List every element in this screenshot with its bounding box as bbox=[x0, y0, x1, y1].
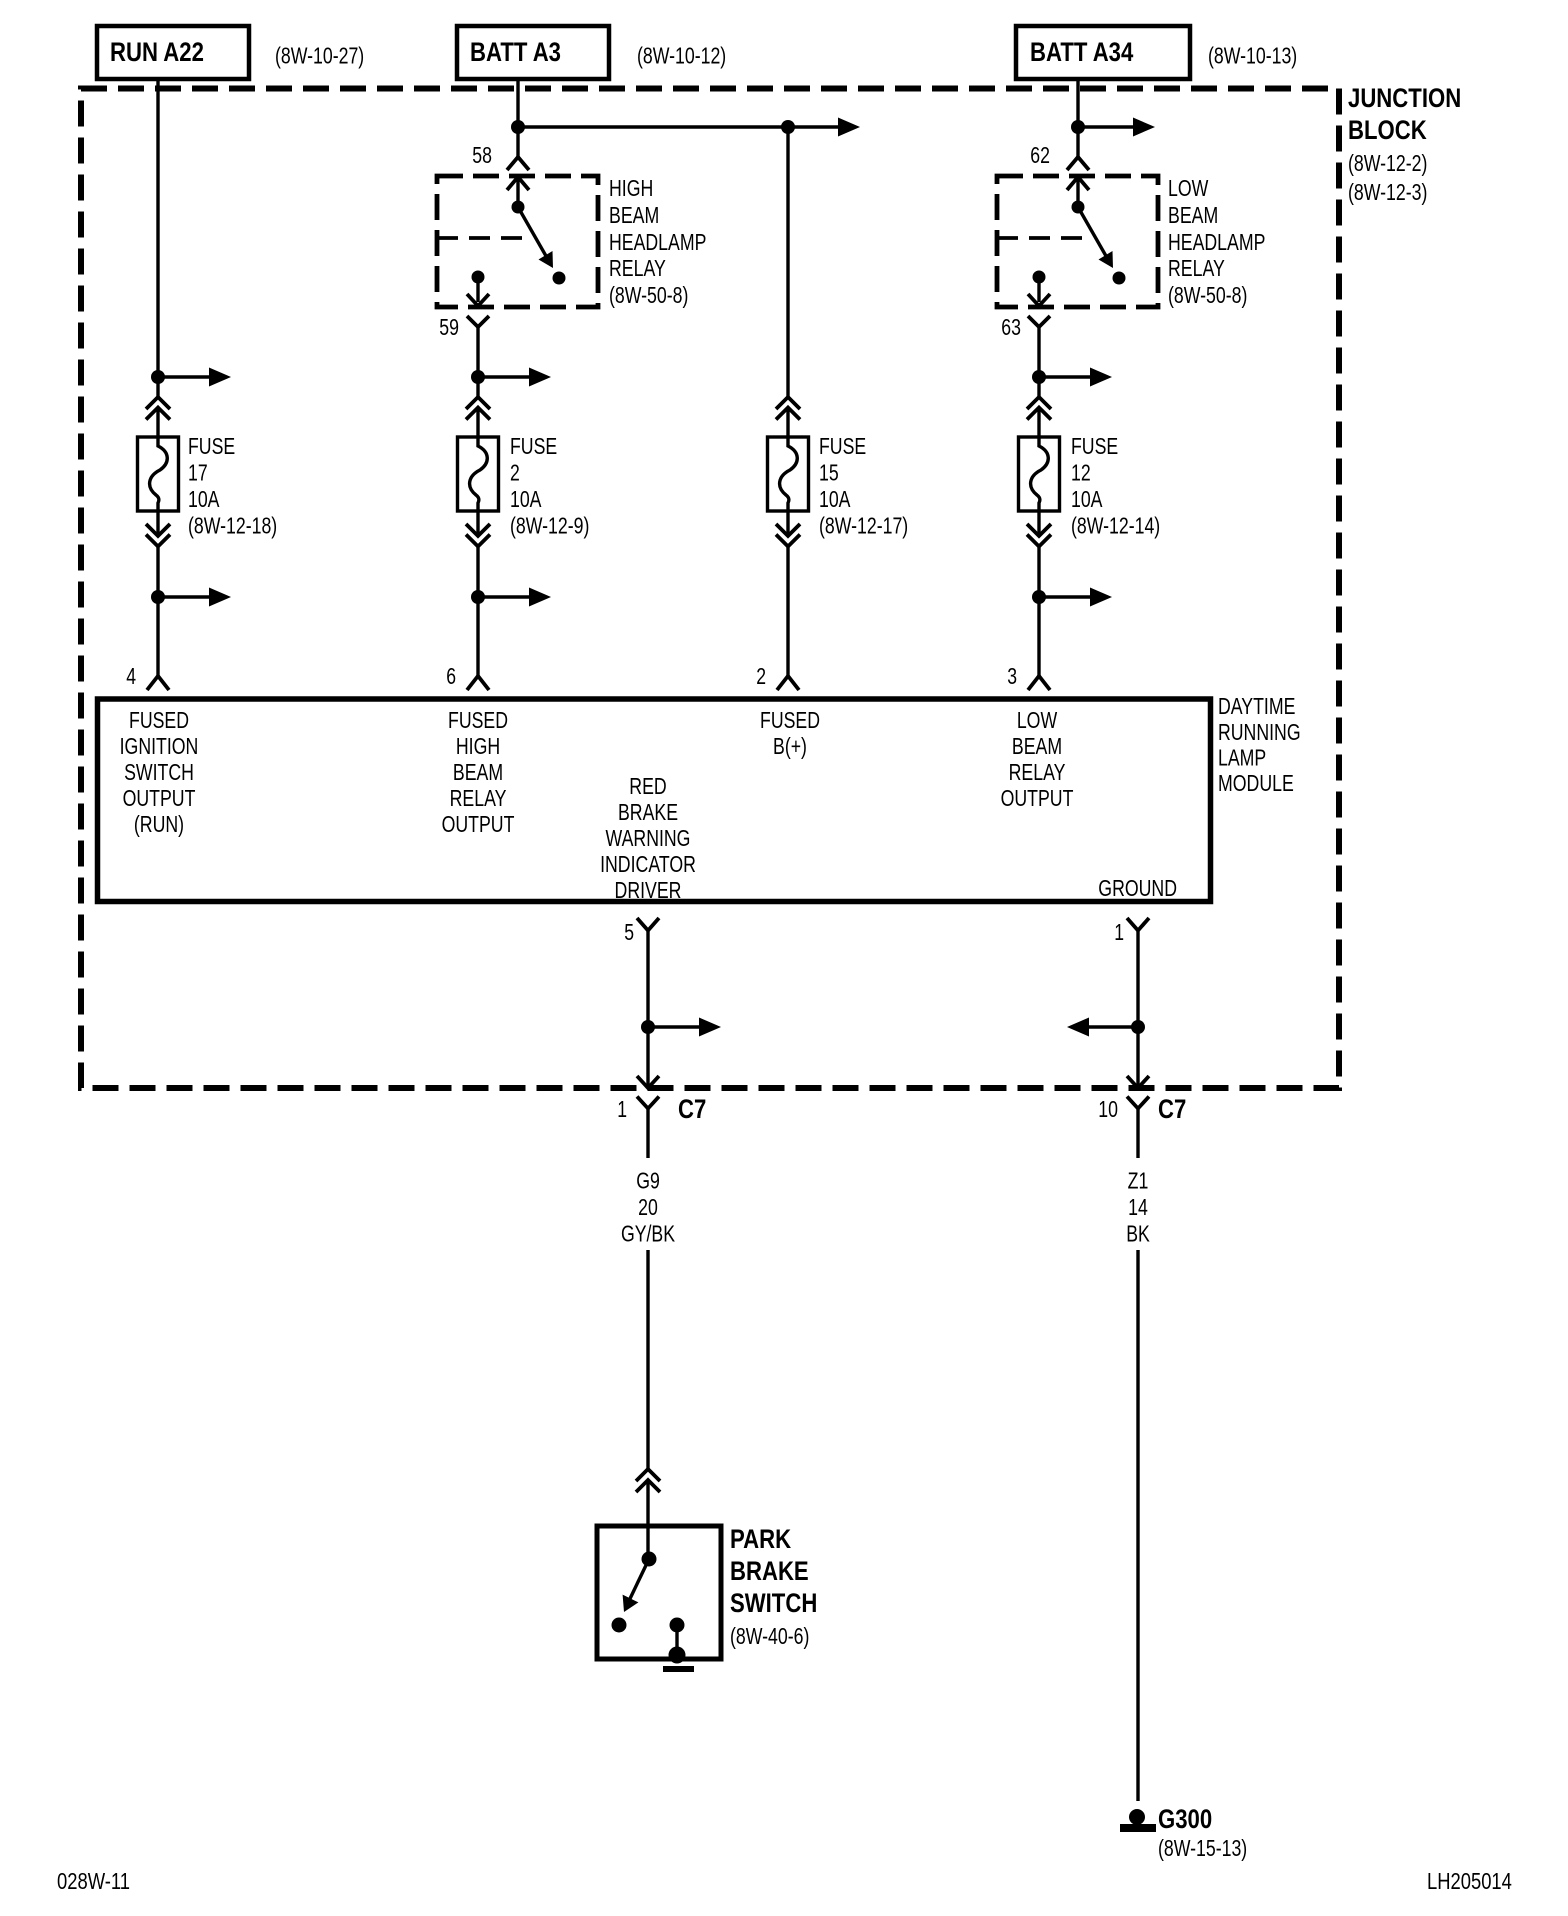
wire connector to fuse 17 bbox=[156, 408, 159, 438]
node BATT A34 splice bbox=[1071, 120, 1085, 134]
svg-text:BRAKE: BRAKE bbox=[730, 1556, 809, 1586]
park brake switch common bbox=[642, 1552, 657, 1567]
wire fuse 15 to connector bbox=[786, 511, 789, 536]
svg-text:HEADLAMP: HEADLAMP bbox=[1168, 229, 1265, 255]
svg-text:HIGH: HIGH bbox=[456, 733, 500, 759]
wire G9 upper segment bbox=[646, 1109, 649, 1159]
svg-text:14: 14 bbox=[1128, 1194, 1148, 1220]
fuse 12 bbox=[1019, 437, 1060, 511]
svg-text:58: 58 bbox=[472, 142, 492, 168]
svg-text:(8W-10-13): (8W-10-13) bbox=[1208, 43, 1297, 69]
svg-text:(8W-10-27): (8W-10-27) bbox=[275, 43, 364, 69]
svg-text:DRIVER: DRIVER bbox=[615, 877, 682, 903]
svg-text:10A: 10A bbox=[819, 486, 851, 512]
svg-text:SWITCH: SWITCH bbox=[730, 1588, 817, 1618]
node splice on high beam feed bbox=[471, 370, 485, 384]
relay coil divider low bbox=[997, 236, 1093, 240]
wire connector to pin 6 bbox=[476, 547, 479, 677]
wire fused B(+) to connector bbox=[786, 127, 789, 397]
svg-text:FUSED: FUSED bbox=[448, 707, 508, 733]
connector pair above fuse 17 bbox=[146, 397, 170, 409]
svg-text:INDICATOR: INDICATOR bbox=[600, 851, 696, 877]
svg-text:15: 15 bbox=[819, 460, 839, 486]
connector pair above fuse 2 bbox=[466, 397, 490, 409]
wire fuse 12 to connector bbox=[1037, 511, 1040, 536]
pin 1 (ground) bbox=[1127, 918, 1149, 931]
svg-text:BEAM: BEAM bbox=[1168, 202, 1218, 228]
svg-text:IGNITION: IGNITION bbox=[120, 733, 199, 759]
connector C7 pin 10 bbox=[1127, 1097, 1149, 1109]
wire relay output to connector bbox=[476, 327, 479, 397]
svg-text:BEAM: BEAM bbox=[1012, 733, 1062, 759]
wire G9 lower segment bbox=[646, 1250, 649, 1469]
wire pin 1 to C7 bbox=[1136, 931, 1139, 1089]
svg-text:5: 5 bbox=[624, 919, 634, 945]
wire connector to pin 4 bbox=[156, 547, 159, 677]
wire Z1 lower segment bbox=[1136, 1250, 1139, 1801]
relay output terminal low bbox=[1033, 271, 1046, 284]
wire connector to fuse 15 bbox=[786, 408, 789, 438]
wire BATT A34 down bbox=[1076, 79, 1079, 157]
exit arrow at junction border left bbox=[637, 1076, 659, 1088]
park brake switch box bbox=[597, 1526, 721, 1659]
park brake case ground bbox=[669, 1647, 686, 1664]
svg-text:G300: G300 bbox=[1158, 1804, 1212, 1834]
svg-text:4: 4 bbox=[126, 663, 136, 689]
svg-text:1: 1 bbox=[617, 1096, 627, 1122]
daytime running lamp module box bbox=[98, 699, 1211, 902]
svg-text:2: 2 bbox=[756, 663, 766, 689]
svg-text:JUNCTION: JUNCTION bbox=[1348, 83, 1461, 113]
svg-text:RED: RED bbox=[629, 773, 666, 799]
pin 5 bbox=[637, 918, 659, 931]
svg-text:HIGH: HIGH bbox=[609, 175, 653, 201]
svg-text:PARK: PARK bbox=[730, 1524, 791, 1554]
node splice on low beam feed bbox=[1032, 370, 1046, 384]
svg-text:RELAY: RELAY bbox=[1168, 255, 1225, 281]
svg-text:FUSE: FUSE bbox=[1071, 433, 1118, 459]
wire connector to fuse 2 bbox=[476, 408, 479, 438]
wire Z1 upper segment bbox=[1136, 1109, 1139, 1159]
svg-text:1: 1 bbox=[1114, 919, 1124, 945]
node splice below fuse 12 bbox=[1032, 590, 1046, 604]
fuse 2 bbox=[458, 437, 499, 511]
svg-text:(8W-12-2): (8W-12-2) bbox=[1348, 150, 1427, 176]
svg-text:3: 3 bbox=[1007, 663, 1017, 689]
connector C7 pin 1 bbox=[637, 1097, 659, 1109]
connector pair below fuse 15 bbox=[776, 524, 800, 536]
svg-text:RELAY: RELAY bbox=[450, 785, 507, 811]
node splice pin1 wire bbox=[1131, 1020, 1145, 1034]
svg-text:RUNNING: RUNNING bbox=[1218, 719, 1301, 745]
connector pair above fuse 12 bbox=[1027, 397, 1051, 409]
svg-text:59: 59 bbox=[439, 314, 459, 340]
svg-text:20: 20 bbox=[638, 1194, 658, 1220]
park brake switch contact bbox=[612, 1618, 627, 1633]
svg-text:HEADLAMP: HEADLAMP bbox=[609, 229, 706, 255]
relay NO contact low bbox=[1113, 272, 1126, 285]
connector pair below fuse 2 bbox=[466, 524, 490, 536]
svg-text:MODULE: MODULE bbox=[1218, 770, 1294, 796]
svg-text:RELAY: RELAY bbox=[609, 255, 666, 281]
svg-text:FUSED: FUSED bbox=[760, 707, 820, 733]
svg-text:(8W-50-8): (8W-50-8) bbox=[1168, 282, 1247, 308]
svg-text:FUSED: FUSED bbox=[129, 707, 189, 733]
svg-text:FUSE: FUSE bbox=[188, 433, 235, 459]
wire connector to fuse 12 bbox=[1037, 408, 1040, 438]
svg-text:SWITCH: SWITCH bbox=[124, 759, 194, 785]
svg-text:BATT A3: BATT A3 bbox=[470, 37, 561, 67]
svg-text:G9: G9 bbox=[636, 1168, 660, 1194]
svg-text:028W-11: 028W-11 bbox=[57, 1868, 130, 1894]
wire connector to pin 3 bbox=[1037, 547, 1040, 677]
wire BATT A3 down bbox=[516, 79, 519, 157]
svg-text:(RUN): (RUN) bbox=[134, 811, 184, 837]
relay output terminal bbox=[472, 271, 485, 284]
svg-text:GY/BK: GY/BK bbox=[621, 1221, 676, 1247]
node splice on RUN feed bbox=[151, 370, 165, 384]
svg-text:LOW: LOW bbox=[1168, 175, 1209, 201]
exit arrow at junction border right bbox=[1127, 1076, 1149, 1088]
svg-text:OUTPUT: OUTPUT bbox=[442, 811, 515, 837]
wire BATT A3 branch to fused B(+) bbox=[518, 125, 838, 128]
low beam headlamp relay box bbox=[997, 176, 1158, 307]
inline connector on G9 bbox=[636, 1469, 660, 1481]
svg-text:BEAM: BEAM bbox=[609, 202, 659, 228]
svg-text:(8W-12-18): (8W-12-18) bbox=[188, 513, 277, 539]
svg-text:(8W-40-6): (8W-40-6) bbox=[730, 1623, 809, 1649]
svg-text:BLOCK: BLOCK bbox=[1348, 115, 1427, 145]
svg-text:FUSE: FUSE bbox=[510, 433, 557, 459]
svg-text:BK: BK bbox=[1126, 1221, 1150, 1247]
svg-text:2: 2 bbox=[510, 460, 520, 486]
relay NO contact bbox=[553, 272, 566, 285]
svg-text:10: 10 bbox=[1098, 1096, 1118, 1122]
relay switch arm low bbox=[1078, 207, 1110, 263]
svg-text:10A: 10A bbox=[510, 486, 542, 512]
svg-text:(8W-15-13): (8W-15-13) bbox=[1158, 1835, 1247, 1861]
svg-text:B(+): B(+) bbox=[773, 733, 807, 759]
connector pair above fuse 15 bbox=[776, 397, 800, 409]
connector pair below fuse 17 bbox=[146, 524, 170, 536]
wire fuse 17 to connector bbox=[156, 511, 159, 536]
connector box BATT A3 bbox=[457, 26, 609, 79]
wire fuse 2 to connector bbox=[476, 511, 479, 536]
relay common terminal bbox=[512, 201, 525, 214]
svg-text:RUN A22: RUN A22 bbox=[110, 37, 204, 67]
connector box BATT A34 bbox=[1016, 26, 1190, 79]
svg-text:(8W-12-3): (8W-12-3) bbox=[1348, 179, 1427, 205]
high beam headlamp relay box bbox=[437, 176, 598, 307]
svg-text:(8W-12-17): (8W-12-17) bbox=[819, 513, 908, 539]
relay coil divider bbox=[437, 236, 533, 240]
svg-text:10A: 10A bbox=[1071, 486, 1103, 512]
connector pair below fuse 12 bbox=[1027, 524, 1051, 536]
svg-text:(8W-10-12): (8W-10-12) bbox=[637, 43, 726, 69]
junction block dashed outline bbox=[81, 89, 1339, 1089]
svg-text:RELAY: RELAY bbox=[1009, 759, 1066, 785]
svg-text:BRAKE: BRAKE bbox=[618, 799, 678, 825]
wire RUN A22 to connector bbox=[156, 79, 159, 397]
svg-text:WARNING: WARNING bbox=[606, 825, 691, 851]
relay common terminal low bbox=[1072, 201, 1085, 214]
svg-text:LH205014: LH205014 bbox=[1427, 1868, 1512, 1894]
ground G300 symbol bbox=[1129, 1809, 1145, 1825]
node BATT A3 splice bbox=[511, 120, 525, 134]
svg-text:C7: C7 bbox=[1158, 1094, 1186, 1124]
svg-text:62: 62 bbox=[1030, 142, 1050, 168]
connector box RUN A22 bbox=[97, 26, 249, 79]
wire pin 5 to C7 bbox=[646, 931, 649, 1089]
svg-text:Z1: Z1 bbox=[1128, 1168, 1149, 1194]
node splice below fuse 17 bbox=[151, 590, 165, 604]
svg-text:(8W-50-8): (8W-50-8) bbox=[609, 282, 688, 308]
relay switch arm bbox=[518, 207, 550, 263]
svg-text:LAMP: LAMP bbox=[1218, 745, 1266, 771]
park brake switch arm bbox=[626, 1559, 649, 1607]
svg-text:OUTPUT: OUTPUT bbox=[1001, 785, 1074, 811]
wire relay output to connector bbox=[1037, 327, 1040, 397]
wire BATT A34 branch arrow bbox=[1078, 125, 1133, 128]
wire connector to pin 2 bbox=[786, 547, 789, 677]
fuse 15 bbox=[768, 437, 809, 511]
node splice pin5 wire bbox=[641, 1020, 655, 1034]
park brake switch ground contact bbox=[670, 1618, 685, 1633]
svg-text:BATT A34: BATT A34 bbox=[1030, 37, 1133, 67]
svg-text:GROUND: GROUND bbox=[1098, 875, 1177, 901]
svg-text:6: 6 bbox=[446, 663, 456, 689]
svg-text:LOW: LOW bbox=[1017, 707, 1058, 733]
svg-text:BEAM: BEAM bbox=[453, 759, 503, 785]
svg-text:63: 63 bbox=[1001, 314, 1021, 340]
fuse 17 bbox=[138, 437, 179, 511]
svg-text:(8W-12-14): (8W-12-14) bbox=[1071, 513, 1160, 539]
svg-text:FUSE: FUSE bbox=[819, 433, 866, 459]
svg-text:10A: 10A bbox=[188, 486, 220, 512]
svg-text:DAYTIME: DAYTIME bbox=[1218, 693, 1295, 719]
svg-text:OUTPUT: OUTPUT bbox=[123, 785, 196, 811]
node splice below fuse 2 bbox=[471, 590, 485, 604]
svg-text:12: 12 bbox=[1071, 460, 1091, 486]
svg-text:(8W-12-9): (8W-12-9) bbox=[510, 513, 589, 539]
svg-text:17: 17 bbox=[188, 460, 208, 486]
svg-text:C7: C7 bbox=[678, 1094, 706, 1124]
